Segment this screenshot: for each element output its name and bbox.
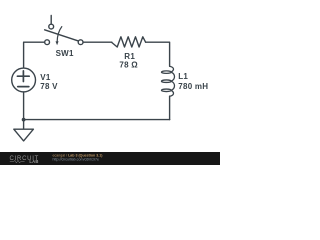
switch SW1 xyxy=(50,16,52,25)
wire right rail upper xyxy=(146,42,170,66)
svg-text:78 Ω: 78 Ω xyxy=(119,61,138,70)
svg-text:780 mH: 780 mH xyxy=(178,82,208,91)
svg-text:LAB: LAB xyxy=(29,159,38,164)
node junction bottom-left xyxy=(22,118,26,122)
resistor R1 xyxy=(112,37,146,47)
svg-text:SW1: SW1 xyxy=(56,49,74,58)
wire V1 bottom to ground junction xyxy=(23,92,25,120)
wire bottom rail xyxy=(24,119,170,121)
wire top-left from corner to switch left terminal xyxy=(24,42,45,68)
svg-text:V1: V1 xyxy=(40,73,51,82)
ground xyxy=(23,120,25,130)
wire switch right terminal to resistor xyxy=(83,41,112,43)
svg-text:http://circuitlab.com/c6hfc97e: http://circuitlab.com/c6hfc97e xyxy=(53,157,100,161)
svg-text:L1: L1 xyxy=(178,72,188,81)
voltage source V1 xyxy=(12,68,36,92)
watermark bar xyxy=(0,152,220,165)
wire right rail lower xyxy=(169,96,171,119)
inductor L1 xyxy=(161,66,174,96)
svg-text:78 V: 78 V xyxy=(40,82,58,91)
